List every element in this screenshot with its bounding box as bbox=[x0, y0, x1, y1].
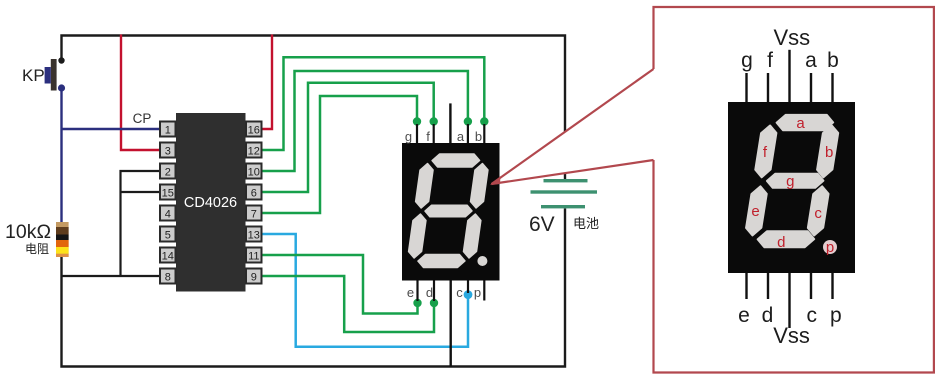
display U2 bottom pin stubs e d Vss c p bbox=[418, 279, 485, 367]
svg-text:b: b bbox=[475, 129, 482, 144]
svg-text:5: 5 bbox=[165, 230, 171, 242]
pin 8 bbox=[160, 269, 176, 284]
pin 11 bbox=[246, 248, 262, 263]
junction dot segment f bbox=[430, 117, 438, 125]
junction dot segment e bbox=[413, 299, 421, 307]
svg-text:CP: CP bbox=[133, 111, 152, 126]
svg-text:16: 16 bbox=[248, 125, 260, 137]
svg-text:10: 10 bbox=[248, 167, 260, 179]
svg-text:p: p bbox=[830, 304, 842, 327]
big display label Vss bottom bbox=[773, 323, 810, 348]
big display decimal point p bbox=[823, 240, 837, 254]
svg-text:d: d bbox=[777, 234, 785, 251]
svg-text:d: d bbox=[762, 304, 774, 327]
svg-text:f: f bbox=[426, 129, 430, 144]
svg-text:e: e bbox=[751, 203, 759, 220]
pin 3 bbox=[160, 143, 176, 158]
junction dot segment a bbox=[464, 117, 472, 125]
svg-text:c: c bbox=[814, 205, 822, 222]
wire green pin 6 to segment f bbox=[261, 83, 434, 192]
pin 5 bbox=[160, 227, 176, 242]
big display digit segments bbox=[743, 115, 841, 247]
svg-text:13: 13 bbox=[248, 230, 260, 242]
junction dot segment c cyan bbox=[464, 290, 473, 299]
wire red Vdd to pin 3 bbox=[121, 35, 160, 151]
big display segment letters bbox=[751, 115, 834, 256]
svg-text:11: 11 bbox=[248, 251, 259, 263]
big display bottom pin stubs bbox=[747, 271, 833, 328]
svg-text:电池: 电池 bbox=[573, 216, 599, 231]
callout zoom box frame bbox=[654, 7, 934, 373]
svg-text:e: e bbox=[738, 304, 750, 327]
svg-text:6V: 6V bbox=[529, 213, 555, 236]
svg-text:c: c bbox=[456, 285, 463, 300]
svg-text:4: 4 bbox=[165, 209, 171, 221]
svg-text:6: 6 bbox=[251, 188, 257, 200]
display U2 digit segments bbox=[406, 154, 490, 268]
svg-text:a: a bbox=[457, 129, 465, 144]
svg-text:7: 7 bbox=[251, 209, 257, 221]
svg-text:14: 14 bbox=[162, 251, 174, 263]
svg-text:9: 9 bbox=[251, 272, 257, 284]
svg-text:b: b bbox=[825, 144, 833, 161]
wire pin2/pin15 ground bus bbox=[121, 171, 161, 276]
display U2 decimal point bbox=[477, 256, 487, 266]
svg-text:2: 2 bbox=[165, 167, 171, 179]
wire green pin 9 to segment d bbox=[261, 276, 434, 332]
pin 1 bbox=[160, 122, 176, 137]
wire green pin 7 to segment g bbox=[261, 96, 417, 213]
wire cyan pin 13 to segment c bbox=[261, 234, 468, 347]
display U2 top pin labels g f a b bbox=[405, 129, 482, 144]
big display top pin stubs bbox=[747, 50, 833, 104]
svg-text:g: g bbox=[786, 173, 794, 190]
big display bottom labels e d c p bbox=[738, 304, 841, 327]
wire blue clock from button to pin 1 bbox=[62, 88, 161, 223]
svg-text:f: f bbox=[767, 49, 773, 72]
resistor 10kOhm bbox=[56, 222, 69, 257]
pin 13 bbox=[246, 227, 262, 242]
svg-text:Vss: Vss bbox=[773, 25, 810, 50]
callout arrowhead bbox=[490, 176, 501, 185]
svg-text:8: 8 bbox=[165, 272, 171, 284]
wire red Vdd to pin 16 bbox=[261, 35, 272, 130]
svg-text:g: g bbox=[405, 129, 412, 144]
svg-text:a: a bbox=[805, 49, 817, 72]
svg-text:15: 15 bbox=[162, 188, 174, 200]
junction dot segment g bbox=[413, 117, 421, 125]
svg-text:12: 12 bbox=[248, 146, 260, 158]
pin 2 bbox=[160, 164, 176, 179]
svg-text:g: g bbox=[741, 49, 753, 72]
battery label 6V bbox=[529, 213, 555, 236]
big display top labels g f a b bbox=[741, 49, 839, 72]
svg-text:p: p bbox=[474, 285, 481, 300]
svg-text:Vss: Vss bbox=[773, 323, 810, 348]
pin 16 bbox=[246, 122, 262, 137]
battery 6V plates bbox=[531, 179, 598, 208]
svg-text:电阻: 电阻 bbox=[25, 242, 49, 256]
wire green pin 11 to segment e bbox=[261, 255, 418, 314]
pin 7 bbox=[246, 206, 262, 221]
pin 4 bbox=[160, 206, 176, 221]
pin 9 bbox=[246, 269, 262, 284]
pushbutton KP bbox=[22, 57, 65, 91]
svg-text:d: d bbox=[426, 285, 433, 300]
pin 14 bbox=[160, 248, 176, 263]
callout wedge lines to display bbox=[492, 69, 654, 184]
svg-text:KP: KP bbox=[22, 66, 45, 85]
display U2 top pin stubs g f Vss a b bbox=[417, 103, 484, 146]
svg-text:1: 1 bbox=[165, 125, 171, 137]
junction dot segment d bbox=[430, 299, 438, 307]
pin 15 bbox=[160, 185, 176, 200]
node CP label bbox=[133, 111, 152, 126]
display U2 bottom pin labels e d c p bbox=[407, 285, 481, 300]
callout wedge white fill bbox=[492, 69, 654, 184]
pin 6 bbox=[246, 185, 262, 200]
big display body bbox=[728, 102, 855, 273]
battery label dianchi bbox=[573, 216, 599, 231]
wire bottom rail bbox=[62, 209, 566, 367]
big display label Vss top bbox=[773, 25, 810, 50]
display U2 body bbox=[402, 143, 500, 281]
svg-text:CD4026: CD4026 bbox=[184, 195, 237, 211]
svg-text:p: p bbox=[826, 239, 834, 256]
junction dot segment b bbox=[480, 117, 488, 125]
svg-text:10kΩ: 10kΩ bbox=[5, 221, 51, 243]
wire green pin 12 to segment b bbox=[261, 57, 484, 150]
svg-text:3: 3 bbox=[165, 146, 171, 158]
svg-text:e: e bbox=[407, 285, 414, 300]
svg-text:a: a bbox=[796, 115, 805, 132]
wire ground branch to pin 8 bbox=[62, 275, 160, 277]
resistor value label 10kOhm bbox=[5, 221, 51, 243]
resistor label dianzu bbox=[25, 242, 49, 256]
svg-text:b: b bbox=[827, 49, 839, 72]
IC U1 CD4026 bbox=[176, 113, 246, 292]
pin 12 bbox=[246, 143, 262, 158]
wire top rail bbox=[62, 36, 566, 180]
pin 10 bbox=[246, 164, 262, 179]
wire green pin 10 to segment a bbox=[261, 71, 468, 171]
